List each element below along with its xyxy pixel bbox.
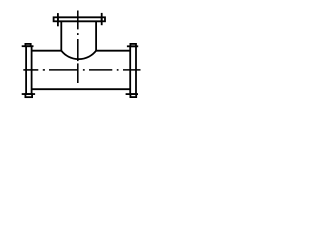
right flange outer face <box>135 46 137 94</box>
flanged tee piping schematic <box>0 0 150 120</box>
top flange right bolt shank <box>101 13 103 25</box>
top flange plate top line <box>58 16 102 18</box>
left flange bottom bar <box>22 93 35 95</box>
right flange top bar <box>127 45 138 47</box>
branch centerline dot 1 <box>77 33 79 35</box>
top flange left nut <box>54 17 58 21</box>
left flange bottom nut <box>25 94 32 97</box>
branch centerline dash 1 <box>77 11 79 30</box>
run pipe top line left segment <box>32 50 62 52</box>
run centerline dot 1 <box>43 69 45 71</box>
left flange top bar <box>22 45 34 47</box>
top flange plate bottom line <box>58 20 102 22</box>
right flange bottom nut <box>130 94 136 97</box>
branch centerline dash 3 <box>77 63 79 83</box>
branch centerline dash 2 <box>77 39 79 61</box>
run centerline dash 3 <box>89 69 112 71</box>
branch pipe right wall <box>95 21 97 50</box>
left flange top nut <box>25 44 30 46</box>
run pipe bottom line <box>32 88 131 90</box>
top flange right nut <box>102 17 105 21</box>
right flange inner face <box>129 46 131 94</box>
right flange top nut <box>130 44 136 46</box>
run centerline dot 2 <box>83 69 85 71</box>
left flange outer face <box>25 46 27 94</box>
run centerline dot 3 <box>117 69 119 71</box>
branch-run intersection arc <box>61 51 96 59</box>
left flange inner face <box>31 46 33 94</box>
right flange bottom bar <box>126 93 138 95</box>
top flange left bolt shank <box>57 13 59 26</box>
run centerline dash 4 <box>123 69 141 71</box>
run pipe top line right segment <box>96 50 130 52</box>
run centerline dash 2 <box>49 69 78 71</box>
branch pipe left wall <box>60 21 62 50</box>
run centerline dash 1 <box>23 69 38 71</box>
